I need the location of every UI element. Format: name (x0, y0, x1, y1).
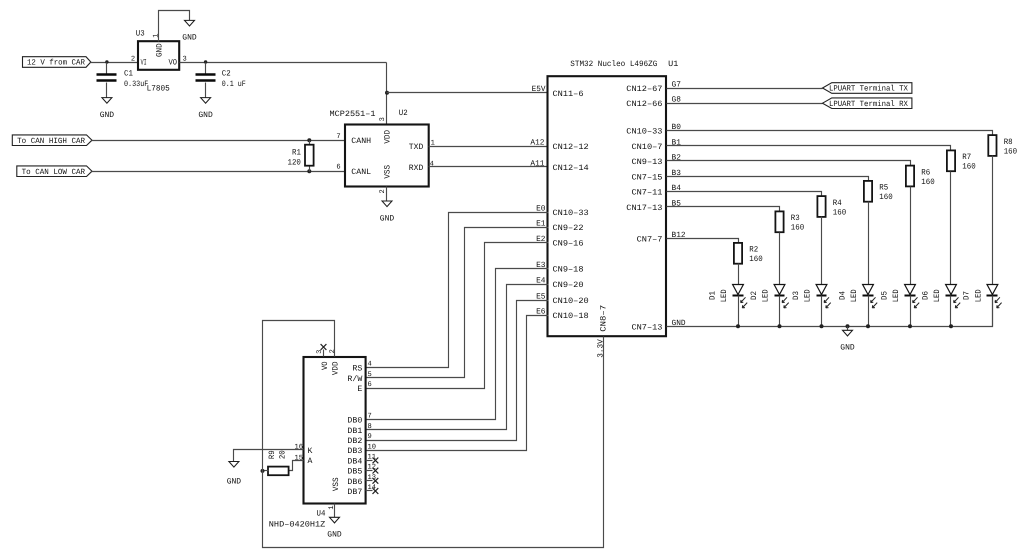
svg-text:CN10–7: CN10–7 (631, 143, 662, 152)
junction at E5V branch (385, 91, 389, 95)
svg-text:VO: VO (321, 361, 330, 370)
capacitor C1 (106, 63, 108, 74)
wire R8 to D7 (992, 156, 994, 285)
no-connect X on VO (321, 344, 327, 350)
ground below LED rail (843, 330, 853, 336)
svg-text:160: 160 (833, 208, 847, 217)
svg-text:TXD: TXD (409, 143, 424, 152)
svg-text:2: 2 (329, 349, 337, 353)
svg-text:GND: GND (198, 111, 213, 120)
svg-text:DB5: DB5 (347, 468, 362, 477)
svg-text:E: E (357, 385, 362, 394)
svg-text:E4: E4 (536, 277, 546, 286)
resistor R4 (817, 196, 825, 217)
svg-text:CN10–33: CN10–33 (626, 127, 662, 136)
svg-text:VDD: VDD (331, 361, 340, 375)
ground below LCD VSS (330, 517, 340, 523)
wire E2 U1 to LCD E (366, 243, 549, 389)
wire 12V input to C1 and U3 VI (91, 62, 139, 64)
svg-text:4: 4 (430, 160, 434, 168)
svg-text:160: 160 (879, 193, 893, 202)
svg-text:6: 6 (368, 381, 372, 389)
wire R5 to D4 (868, 202, 870, 285)
svg-text:LED: LED (850, 289, 859, 302)
junction ground tap (846, 324, 850, 328)
svg-text:RS: RS (352, 365, 362, 374)
no-connect X on DB7 (373, 488, 379, 494)
svg-text:R4: R4 (833, 199, 842, 208)
svg-text:G8: G8 (672, 96, 682, 105)
svg-text:C1: C1 (124, 69, 133, 78)
wire RXD to STM32 A11 (429, 166, 549, 168)
LED D3 (816, 285, 827, 295)
ground below C2 (201, 98, 211, 104)
svg-text:16: 16 (294, 444, 303, 452)
svg-text:B4: B4 (672, 184, 682, 193)
mcu U1 box (548, 76, 667, 336)
wire U1 GND rail (667, 296, 993, 327)
wire D5 cathode down (910, 296, 912, 327)
wire D4 cathode down (868, 296, 870, 327)
wire R1 bottom lead (309, 166, 311, 172)
svg-text:LED: LED (720, 289, 729, 302)
svg-text:LED: LED (892, 289, 901, 302)
LED D2 (774, 285, 785, 295)
net label "To CAN LOW CAR" (17, 166, 92, 177)
wire rail to ground (847, 327, 849, 331)
svg-text:CN12–14: CN12–14 (553, 164, 589, 173)
svg-text:CN7–7: CN7–7 (637, 235, 663, 244)
svg-text:G7: G7 (672, 80, 682, 89)
svg-text:160: 160 (749, 255, 763, 264)
svg-text:CN7–13: CN7–13 (631, 323, 662, 332)
ground at U3 GND pin (185, 20, 195, 26)
svg-text:B5: B5 (672, 199, 682, 208)
svg-text:CN17–13: CN17–13 (626, 204, 662, 213)
wire D6 cathode down (950, 296, 952, 327)
svg-text:GND: GND (100, 111, 115, 120)
svg-text:U1: U1 (668, 60, 678, 69)
svg-text:VSS: VSS (332, 477, 341, 491)
svg-text:K: K (308, 447, 313, 456)
svg-text:DB6: DB6 (347, 478, 362, 487)
svg-text:B3: B3 (672, 169, 682, 178)
U4 DB4 stub (366, 460, 373, 462)
svg-text:R/W: R/W (347, 375, 362, 384)
resistor R7 (947, 150, 955, 171)
svg-text:GND: GND (227, 477, 242, 486)
svg-text:CN9–18: CN9–18 (553, 266, 584, 275)
junction R1 top (307, 138, 311, 142)
svg-text:VSS: VSS (383, 165, 392, 179)
svg-text:DB0: DB0 (347, 417, 362, 426)
net label "LPUART Terminal RX" (823, 98, 912, 109)
svg-text:9: 9 (368, 433, 372, 441)
svg-text:R8: R8 (1004, 138, 1013, 147)
wire D2 cathode down (779, 296, 781, 327)
svg-text:CN12–12: CN12–12 (553, 143, 589, 152)
svg-text:CN12–67: CN12–67 (626, 85, 662, 94)
wire CAN low to U2 CANL (92, 171, 345, 173)
net label "LPUART Terminal TX" (823, 83, 912, 94)
svg-text:160: 160 (921, 178, 935, 187)
svg-text:LPUART Terminal RX: LPUART Terminal RX (829, 100, 908, 109)
wire E1 U1 to LCD R/W (366, 228, 549, 378)
svg-text:GND: GND (840, 344, 855, 353)
svg-text:CN12–66: CN12–66 (626, 100, 662, 109)
wire E5 U1 to LCD DB2 (366, 301, 549, 441)
svg-text:To CAN HIGH CAR: To CAN HIGH CAR (17, 137, 85, 146)
svg-text:R1: R1 (292, 149, 301, 158)
svg-text:CN8–7: CN8–7 (599, 305, 608, 332)
wire E4 U1 to LCD DB1 (366, 285, 549, 430)
svg-text:D5: D5 (880, 291, 889, 300)
U4 VO pin stub (323, 350, 325, 357)
wire D7 cathode down (992, 296, 994, 327)
svg-text:CN9–13: CN9–13 (631, 158, 662, 167)
resistor R8 (988, 135, 996, 156)
svg-text:7: 7 (368, 413, 372, 421)
junction LED rail x=951 (949, 324, 953, 328)
svg-text:E0: E0 (536, 205, 546, 214)
wire B0 to R8 (667, 131, 993, 136)
svg-text:To CAN LOW CAR: To CAN LOW CAR (22, 168, 86, 177)
svg-text:LED: LED (933, 289, 942, 302)
wire CAN high to U2 CANH (92, 140, 345, 142)
svg-text:DB4: DB4 (347, 457, 362, 466)
svg-text:CN9–22: CN9–22 (553, 224, 584, 233)
U4 DB6 stub (366, 480, 373, 482)
wire G8 to LPUART RX (667, 103, 823, 105)
svg-text:LPUART Terminal TX: LPUART Terminal TX (829, 85, 908, 94)
wire 5V rail down to U2 VDD (386, 63, 388, 125)
svg-text:LED: LED (761, 289, 770, 302)
svg-text:160: 160 (962, 163, 976, 172)
svg-text:STM32 Nucleo L496ZG: STM32 Nucleo L496ZG (570, 60, 657, 69)
svg-text:VO: VO (169, 58, 178, 67)
svg-text:DB2: DB2 (347, 437, 362, 446)
svg-text:DB3: DB3 (347, 447, 362, 456)
svg-text:B2: B2 (672, 153, 682, 162)
LED D6 (946, 285, 957, 295)
junction R1 bottom (307, 169, 311, 173)
svg-text:C2: C2 (222, 69, 231, 78)
resistor R5 (864, 181, 872, 202)
wire R9 to 3.3V (263, 470, 269, 472)
svg-text:8: 8 (368, 423, 372, 431)
wire R1 top lead (309, 141, 311, 145)
svg-text:10: 10 (368, 443, 377, 451)
wire E6 U1 to LCD DB3 (366, 316, 549, 451)
svg-text:D7: D7 (963, 291, 972, 300)
junction at C2 (204, 60, 207, 63)
svg-text:2: 2 (131, 56, 135, 64)
svg-text:CN9–20: CN9–20 (553, 281, 584, 290)
no-connect X on DB4 (373, 458, 379, 464)
LED D4 (863, 285, 874, 295)
wire R6 to D5 (910, 187, 912, 285)
svg-text:15: 15 (294, 455, 303, 463)
svg-text:0.33uF: 0.33uF (124, 80, 148, 89)
svg-text:LED: LED (803, 289, 812, 302)
svg-text:E5V: E5V (532, 85, 546, 94)
svg-text:VDD: VDD (383, 130, 392, 144)
wire D3 cathode down (821, 296, 823, 327)
wire B1 to R7 (667, 146, 951, 151)
wire E3 U1 to LCD DB0 (366, 269, 549, 420)
no-connect X on DB5 (373, 468, 379, 474)
svg-text:MCP2551–1: MCP2551–1 (330, 110, 376, 119)
wire 3.3V loop VDD (263, 321, 604, 548)
svg-text:R2: R2 (749, 246, 758, 255)
svg-text:E6: E6 (536, 308, 546, 317)
wire B12 to R2 (667, 239, 739, 243)
wire TXD to STM32 A12 (429, 146, 549, 148)
svg-text:D4: D4 (838, 291, 847, 300)
svg-text:B0: B0 (672, 123, 682, 132)
resistor R6 (906, 166, 914, 187)
svg-text:D3: D3 (792, 291, 801, 300)
svg-text:E1: E1 (536, 220, 546, 229)
capacitor C2 (205, 63, 207, 74)
wire B4 to R4 (667, 192, 822, 197)
svg-text:CN7–15: CN7–15 (631, 173, 662, 182)
LED D5 (905, 285, 916, 295)
U4 DB5 stub (366, 470, 373, 472)
svg-text:6: 6 (336, 163, 340, 171)
svg-text:R9: R9 (268, 450, 277, 459)
junction LED rail x=821.5 (820, 324, 824, 328)
wire U3 GND pin to ground (159, 11, 190, 42)
wire E0 U1 to LCD RS (366, 213, 549, 368)
svg-text:3: 3 (379, 117, 387, 121)
svg-text:DB1: DB1 (347, 427, 362, 436)
svg-text:CN10–33: CN10–33 (553, 209, 589, 218)
svg-text:U2: U2 (399, 109, 408, 118)
junction LED rail x=738 (736, 324, 740, 328)
svg-text:CANL: CANL (351, 168, 371, 177)
svg-text:RXD: RXD (409, 164, 424, 173)
wire A to R9 (289, 461, 304, 471)
wire B3 to R5 (667, 177, 869, 181)
svg-text:R7: R7 (962, 153, 971, 162)
wire U3 VO 5V rail (180, 62, 387, 64)
svg-text:DB7: DB7 (347, 488, 362, 497)
svg-text:D6: D6 (921, 291, 930, 300)
svg-text:120: 120 (288, 158, 302, 167)
wire R4 to D3 (821, 217, 823, 285)
svg-text:20: 20 (278, 450, 287, 459)
svg-text:R3: R3 (791, 214, 800, 223)
svg-text:B1: B1 (672, 138, 682, 147)
svg-text:12 V from CAR: 12 V from CAR (27, 59, 85, 68)
ground below U2 (382, 201, 392, 207)
svg-text:1: 1 (153, 33, 161, 37)
svg-text:VI: VI (141, 58, 147, 67)
LED D7 (987, 285, 998, 295)
net label "To CAN HIGH CAR" (12, 135, 92, 146)
resistor R2 (734, 243, 742, 264)
svg-text:E3: E3 (536, 261, 546, 270)
svg-text:B12: B12 (672, 231, 686, 240)
junction LED rail x=910 (908, 324, 912, 328)
resistor R1 (305, 145, 314, 166)
transceiver U2 box (345, 125, 429, 187)
wire E5V to STM32 CN11-6 (387, 92, 549, 94)
svg-text:CN10–18: CN10–18 (553, 312, 589, 321)
wire U2 VSS to ground (386, 187, 388, 201)
svg-text:5: 5 (368, 371, 372, 379)
svg-text:D2: D2 (750, 291, 759, 300)
wire VSS to ground (334, 504, 336, 518)
svg-text:GND: GND (182, 34, 197, 43)
junction LED rail x=868 (866, 324, 870, 328)
svg-text:CN10–20: CN10–20 (553, 297, 589, 306)
lcd U4 box (304, 357, 366, 504)
svg-text:R5: R5 (879, 184, 888, 193)
regulator U3 box (138, 41, 179, 70)
svg-text:L7805: L7805 (147, 84, 170, 93)
svg-text:160: 160 (1004, 147, 1018, 156)
wire B2 to R6 (667, 161, 911, 166)
junction at R9 / 3.3V (261, 469, 265, 473)
wire B5 to R3 (667, 207, 780, 212)
svg-text:0.1 uF: 0.1 uF (222, 80, 246, 89)
junction LED rail x=779.5 (778, 324, 782, 328)
svg-text:R6: R6 (921, 168, 930, 177)
svg-text:E5: E5 (536, 292, 546, 301)
svg-text:7: 7 (336, 133, 340, 141)
svg-text:CN11–6: CN11–6 (553, 90, 584, 99)
svg-text:160: 160 (791, 224, 805, 233)
svg-text:CN7–11: CN7–11 (631, 188, 662, 197)
svg-text:NHD–0420H1Z: NHD–0420H1Z (269, 520, 326, 529)
U4 DB7 stub (366, 490, 373, 492)
svg-text:E2: E2 (536, 235, 546, 244)
junction at C1 (105, 60, 108, 63)
svg-text:CN9–16: CN9–16 (553, 239, 584, 248)
svg-text:LED: LED (974, 289, 983, 302)
wire G7 to LPUART TX (667, 88, 823, 90)
wire K to ground (234, 450, 304, 462)
svg-text:CANH: CANH (351, 137, 371, 146)
svg-text:GND: GND (672, 319, 686, 328)
no-connect X on DB6 (373, 478, 379, 484)
ground at LCD K (229, 462, 239, 468)
LED D1 (733, 285, 744, 295)
wire D1 cathode down (738, 296, 740, 327)
svg-text:GND: GND (156, 43, 165, 57)
svg-text:A12: A12 (530, 138, 544, 147)
wire R7 to D6 (950, 172, 952, 285)
svg-text:D1: D1 (708, 291, 717, 300)
svg-text:U3: U3 (136, 29, 145, 38)
wire R3 to D2 (779, 233, 781, 285)
wire R2 to D1 (738, 264, 740, 285)
svg-text:4: 4 (368, 361, 372, 369)
svg-text:3: 3 (316, 350, 324, 354)
svg-text:A: A (308, 457, 313, 466)
ground below C1 (102, 98, 112, 104)
resistor R9 (268, 467, 289, 476)
svg-text:GND: GND (380, 214, 395, 223)
net label "12 V from CAR" (23, 57, 91, 68)
resistor R3 (775, 211, 783, 232)
svg-text:A11: A11 (530, 159, 544, 168)
svg-text:U4: U4 (317, 509, 326, 518)
svg-text:GND: GND (327, 531, 342, 540)
